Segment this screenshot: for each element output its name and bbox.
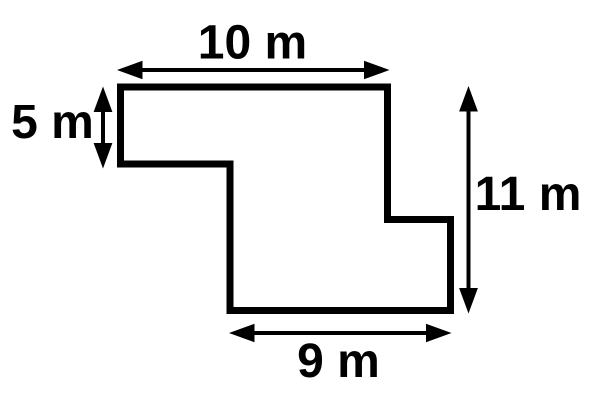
svg-text:9 m: 9 m [297, 335, 380, 388]
dimension arrow 5 m (left, vertical double-headed) [94, 87, 113, 169]
svg-text:10 m: 10 m [198, 17, 307, 70]
dimension arrow 9 m (bottom, horizontal double-headed) [229, 324, 452, 342]
dimension arrow 10 m (top, horizontal double-headed) [117, 61, 390, 79]
dimension arrow 11 m (right, vertical double-headed) [459, 86, 478, 314]
svg-text:5 m: 5 m [11, 96, 94, 149]
L-shaped composite figure outline [121, 87, 451, 311]
svg-text:11 m: 11 m [475, 168, 582, 221]
